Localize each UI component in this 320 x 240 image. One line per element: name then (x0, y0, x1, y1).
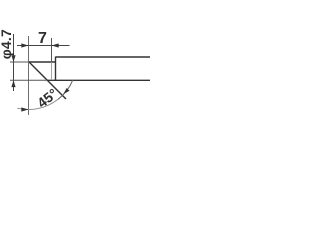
dim line 7 (17, 45, 70, 47)
phi arrow down (11, 55, 15, 62)
svg-text:φ4.7: φ4.7 (0, 29, 14, 59)
arrow right of dim 7 (52, 43, 59, 47)
arc arrow at reference line (21, 107, 28, 111)
phi arrow up (11, 80, 15, 87)
bevel line 45deg extended (29, 62, 66, 99)
phi top extension line (10, 61, 29, 63)
angle arc left part (17, 99, 58, 109)
shaft bottom edge (47, 79, 150, 81)
shoulder vertical (55, 57, 57, 81)
svg-text:7: 7 (38, 30, 47, 47)
tip top edge (29, 61, 56, 63)
phi dim vertical line (13, 34, 15, 91)
arc arrow at bevel (63, 88, 69, 94)
back edge of bevel cut (light) (51, 62, 53, 80)
shaft top edge (56, 56, 151, 58)
angle arc (58, 80, 73, 99)
extension line x=51.5 for dim 7 (51, 38, 53, 62)
extension/reference line x=28.5 (28, 36, 30, 115)
phi bottom extension line (10, 79, 47, 81)
arrow left of dim 7 (21, 43, 28, 47)
